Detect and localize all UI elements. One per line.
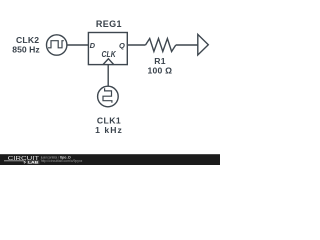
svg-text:R1: R1 xyxy=(154,56,166,66)
watermark logo LAB badge xyxy=(27,160,40,164)
output port arrow xyxy=(198,34,209,55)
svg-text:1 kHz: 1 kHz xyxy=(95,125,123,135)
svg-text:100 Ω: 100 Ω xyxy=(147,66,172,76)
clock source CLK1 circle xyxy=(98,86,119,107)
CLK2 square-wave glyph xyxy=(48,41,64,48)
watermark logo strike line xyxy=(4,160,24,162)
D flip-flop REG1 body xyxy=(88,33,127,65)
svg-text:CLK: CLK xyxy=(102,50,117,60)
watermark bar xyxy=(0,154,220,165)
svg-text:CLK1: CLK1 xyxy=(97,115,121,125)
svg-text:Q: Q xyxy=(119,41,125,50)
wire Q output to R1 xyxy=(127,44,145,46)
svg-text:D: D xyxy=(90,41,96,50)
watermark logo bolt xyxy=(23,160,26,164)
CLK1 square-wave glyph (rotated) xyxy=(103,88,112,103)
svg-text:850 Hz: 850 Hz xyxy=(12,45,40,55)
wire R1 to output port xyxy=(176,44,198,46)
wire CLK pin to CLK1 xyxy=(107,65,109,87)
clock edge-trigger triangle xyxy=(103,59,114,65)
svg-text:REG1: REG1 xyxy=(96,19,122,29)
clock source CLK2 circle xyxy=(47,35,67,55)
svg-text:LAB: LAB xyxy=(28,160,39,164)
wire CLK2 to D input xyxy=(67,44,89,46)
resistor R1 zigzag xyxy=(146,39,176,52)
svg-text:http://circuitlab.com/c/9pyxz: http://circuitlab.com/c/9pyxz xyxy=(41,159,83,163)
